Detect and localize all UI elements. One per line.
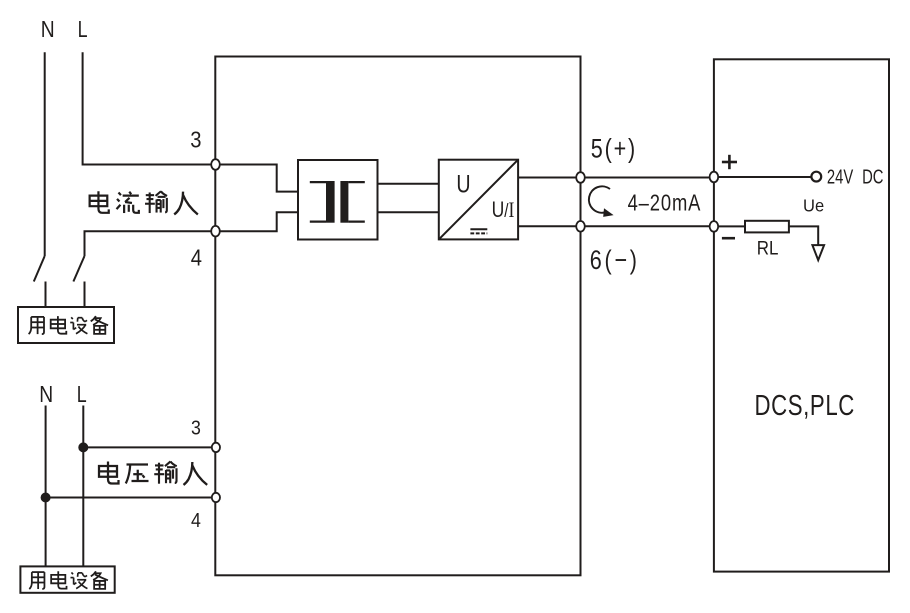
transformer T1 box	[298, 160, 378, 240]
DCS,PLC box	[714, 59, 889, 571]
label N (top mains neutral)	[41, 16, 55, 42]
svg-text:U/I: U/I	[492, 198, 515, 223]
24V supply terminal circle	[811, 172, 821, 182]
switch S1 blade on N line	[34, 256, 45, 282]
U/I converter diagonal	[439, 160, 518, 240]
terminal 6	[576, 221, 585, 232]
label 4-20mA	[628, 191, 701, 216]
label N (bottom mains neutral)	[39, 381, 53, 407]
U/I converter U1 box	[439, 160, 518, 240]
label U/I	[492, 198, 515, 223]
label + (DCS positive)	[722, 155, 737, 169]
svg-text:4: 4	[191, 510, 201, 532]
svg-text:24V: 24V	[827, 165, 854, 188]
svg-text:U: U	[456, 170, 470, 198]
terminal -	[710, 221, 719, 232]
svg-text:6(−): 6(−)	[590, 246, 637, 276]
label - (DCS negative)	[722, 237, 735, 240]
label U (input)	[456, 170, 470, 198]
wire U/I to terminal 6	[518, 225, 580, 227]
label terminal number 4 (bottom)	[191, 510, 201, 532]
load box 用电设备 (top)	[18, 307, 114, 343]
wire N line down to switch	[44, 52, 46, 256]
label 用电设备 (top load)	[29, 316, 109, 334]
loop current direction arrow	[589, 186, 614, 217]
wire transformer to U/I converter (bottom)	[378, 211, 439, 213]
label Ue	[803, 195, 824, 216]
wire L line down and to terminal 3	[83, 52, 216, 164]
label 电流输入	[90, 191, 198, 214]
label terminal number 3 (bottom)	[191, 418, 201, 440]
svg-text:N: N	[39, 381, 53, 407]
label 24V DC	[827, 165, 884, 188]
transducer enclosure box	[215, 57, 580, 576]
DC output symbol	[470, 229, 487, 233]
wire terminal 4 to switch S2 (current return)	[85, 231, 216, 256]
svg-text:DCS,PLC: DCS,PLC	[755, 390, 855, 421]
terminal 3 (top)	[211, 159, 220, 170]
switch S2 lower contact wire	[84, 282, 86, 308]
label terminal number 3 (top)	[190, 126, 201, 153]
junction dot on L (bottom)	[78, 442, 88, 452]
label 5(+)	[591, 134, 635, 164]
wire terminal 6 to DCS -	[581, 225, 714, 227]
wire + to 24V supply terminal	[714, 176, 812, 178]
svg-text:4: 4	[191, 244, 202, 271]
svg-text:L: L	[78, 17, 88, 43]
terminal 5	[576, 172, 585, 183]
wire U/I to terminal 5	[518, 177, 580, 179]
load box 用电设备 (bottom)	[20, 566, 114, 592]
terminal 3 (bottom)	[212, 443, 220, 452]
label 用电设备 (bottom load)	[29, 571, 108, 589]
resistor RL	[745, 221, 789, 233]
label L (bottom mains live)	[77, 382, 87, 408]
svg-text:RL: RL	[757, 237, 779, 258]
svg-text:5(+): 5(+)	[591, 134, 635, 164]
wire L junction to terminal 3 (bottom)	[83, 446, 216, 448]
wire transformer to U/I converter (top)	[378, 183, 439, 185]
switch S1 lower contact wire	[45, 282, 47, 308]
label 6(-)	[590, 246, 637, 276]
svg-text:3: 3	[190, 126, 201, 153]
label 电压输入	[99, 461, 207, 484]
label DCS,PLC	[755, 390, 855, 421]
wire terminal 5 to DCS +	[581, 177, 714, 179]
wire resistor to ground	[789, 226, 818, 245]
svg-text:N: N	[41, 16, 55, 42]
wire N (bottom) down to load	[45, 406, 47, 567]
label L (top mains live)	[78, 17, 88, 43]
label terminal number 4 (top)	[191, 244, 202, 271]
terminal 4 (top)	[211, 226, 220, 237]
switch S2 blade	[73, 256, 84, 282]
terminal 4 (bottom)	[212, 493, 220, 502]
label RL	[757, 237, 779, 258]
svg-text:L: L	[77, 382, 87, 408]
wire L (bottom) down to load	[82, 406, 84, 567]
svg-text:3: 3	[191, 418, 201, 440]
svg-text:DC: DC	[862, 165, 884, 188]
junction dot on N (bottom)	[41, 493, 51, 503]
svg-text:Ue: Ue	[803, 195, 824, 216]
wire terminal 3 jog to transformer	[216, 165, 299, 192]
terminal +	[710, 172, 719, 183]
wire - to resistor RL	[714, 225, 745, 227]
wire terminal 4 jog to transformer	[216, 212, 299, 231]
svg-text:4–20mA: 4–20mA	[628, 191, 701, 216]
wire N junction to terminal 4 (bottom)	[46, 497, 216, 499]
ground symbol	[812, 245, 824, 260]
transformer T1 core symbol	[310, 181, 365, 223]
